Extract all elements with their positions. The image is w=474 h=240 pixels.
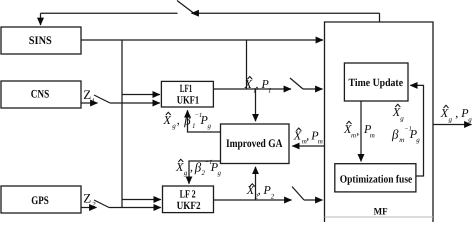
svg-text:GPS: GPS (31, 195, 49, 207)
svg-text:g: g (449, 116, 453, 124)
svg-text:X: X (293, 129, 302, 143)
svg-text:Improved GA: Improved GA (226, 138, 283, 150)
svg-text:LF 2: LF 2 (180, 188, 196, 200)
wire GPS switch to LF2 lower input (109, 207, 161, 209)
svg-text:2: 2 (271, 193, 275, 201)
svg-text:g: g (218, 169, 222, 177)
svg-text:1: 1 (92, 97, 96, 105)
svg-text:,: , (356, 124, 359, 138)
hat over Xm inside MF (347, 121, 352, 124)
svg-text:Time Update: Time Update (349, 77, 404, 89)
switch S3 LF1 output blade (290, 78, 303, 89)
wire GA feedback to LF1 bottom (188, 110, 221, 132)
svg-text:LF1: LF1 (180, 83, 193, 95)
svg-text:2: 2 (92, 200, 96, 208)
svg-text:g: g (172, 122, 176, 130)
wire branch bus to LF1 upper input (122, 94, 160, 96)
svg-text:β: β (391, 127, 399, 142)
block SINS (1, 27, 81, 54)
wire branch bus to LF2 upper input (122, 199, 161, 201)
block Optimization fuse (335, 164, 416, 192)
switch S4 LF2 output blade (292, 187, 304, 201)
svg-text:g: g (416, 136, 420, 144)
svg-text:Z: Z (83, 87, 91, 102)
svg-text:β: β (183, 113, 191, 128)
block MF outer (325, 22, 434, 222)
wire CNS switch to LF1 lower input (110, 102, 160, 104)
wire top feedback left segment (41, 12, 178, 14)
wire GPS output stub (81, 207, 97, 209)
svg-text:CNS: CNS (31, 89, 50, 101)
svg-text:g: g (184, 169, 188, 177)
wire junction SINS line to X1P1 line (246, 40, 248, 89)
hat over Xg output (444, 105, 449, 108)
svg-text:,: , (190, 160, 193, 174)
hat over Xg feedback LF2 (178, 159, 183, 162)
svg-text:m: m (351, 131, 356, 139)
wire SINS output horizontal into MF (81, 39, 323, 41)
svg-text:g: g (468, 116, 472, 124)
wire LF1 output to switch (213, 88, 291, 90)
svg-text:X: X (440, 106, 449, 120)
svg-text:,: , (306, 129, 309, 143)
wire LF2 switch to MF (304, 199, 323, 201)
svg-text:SINS: SINS (29, 35, 52, 47)
svg-text:1: 1 (192, 122, 196, 130)
block Improved GA (221, 124, 290, 164)
svg-text:g: g (208, 122, 212, 130)
hat over X1 (247, 77, 252, 80)
svg-text:m: m (370, 131, 375, 139)
svg-text:,: , (258, 183, 261, 197)
wire Time Update to Optimization fuse (360, 101, 362, 161)
wire vertical bus from SINS line down (121, 40, 123, 208)
wire vertical from MF top to feedback line (379, 13, 381, 22)
wire GA feedback to LF2 top (189, 161, 221, 184)
wire LF2 output to switch (213, 199, 291, 201)
block GPS (1, 186, 81, 213)
block Time Update (344, 63, 408, 101)
switch S1 CNS blade (94, 95, 110, 103)
wire MF output (433, 124, 472, 126)
hat over Xm outside MF (296, 128, 301, 131)
wire branch X1P1 down into GA top (255, 89, 257, 121)
wire MF to GA Xm Pm (292, 145, 324, 147)
svg-text:,: , (177, 113, 180, 127)
switch S2 GPS blade (94, 200, 109, 208)
hat over X2 (250, 184, 255, 187)
hat over Xg inside MF (395, 104, 400, 107)
block LF1 UKF1 (161, 81, 213, 107)
wire LF1 switch to MF (303, 88, 323, 90)
svg-text:MF: MF (374, 207, 388, 218)
svg-text:,: , (256, 77, 259, 91)
wire Optimization fuse feedback to Time Update (410, 85, 423, 176)
svg-text:Optimization fuse: Optimization fuse (340, 174, 413, 186)
svg-text:m: m (318, 137, 323, 145)
hat over Xg feedback LF1 (166, 112, 171, 115)
svg-text:UKF2: UKF2 (177, 200, 201, 212)
svg-text:1: 1 (268, 87, 272, 95)
svg-text:UKF1: UKF1 (177, 94, 200, 106)
wire CNS output stub (81, 102, 98, 104)
svg-text:m: m (399, 136, 404, 144)
block LF2 UKF2 (163, 186, 214, 213)
svg-text:g: g (400, 115, 404, 123)
svg-text:,: , (455, 106, 458, 120)
svg-text:Z: Z (83, 190, 91, 205)
wire top feedback right segment with left arrowhead (192, 12, 380, 14)
svg-text:2: 2 (202, 169, 206, 177)
switch S0 top feedback blade (177, 1, 194, 14)
wire branch X2P2 up into GA bottom (255, 167, 257, 200)
block CNS (1, 81, 81, 108)
wire top feedback drop into SINS (40, 13, 42, 25)
